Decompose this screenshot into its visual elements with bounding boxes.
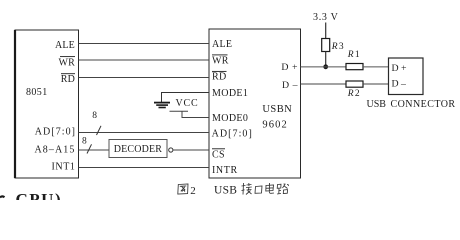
wire VCC to MODE0	[182, 111, 209, 117]
svg-text:R2: R2	[347, 89, 360, 99]
pin RD (8051)	[61, 74, 75, 85]
decoder U3 box	[109, 140, 167, 158]
wire INT1 to INTR	[79, 167, 210, 169]
resistor R3 body	[322, 39, 330, 52]
caption char 口	[255, 186, 262, 193]
svg-text:AD[7:0]: AD[7:0]	[35, 126, 76, 137]
svg-text:8051: 8051	[26, 87, 48, 98]
svg-text:A8–A15: A8–A15	[34, 145, 75, 156]
decoder output inverter bubble	[169, 148, 173, 152]
wire WR	[79, 59, 210, 61]
bus width slash on A8-A15	[87, 144, 92, 153]
svg-text:MODE0: MODE0	[212, 113, 248, 124]
partial page text fragment (bottom-left)	[0, 190, 62, 209]
pin WR (8051)	[58, 57, 75, 69]
wire R1 to connector D+	[363, 66, 389, 68]
svg-text:CPU): CPU)	[16, 190, 63, 200]
svg-text:RD: RD	[61, 74, 75, 85]
resistor R1 body	[346, 64, 363, 70]
bus width slash on AD bus	[97, 126, 102, 135]
svg-text:USBN: USBN	[262, 104, 292, 115]
svg-text:CONNECTOR: CONNECTOR	[391, 99, 456, 110]
caption char 电	[266, 183, 275, 193]
svg-text:WR: WR	[212, 56, 229, 67]
caption char 路	[277, 184, 289, 194]
wire R3 to D+ junction	[325, 52, 327, 67]
junction dot on D+	[323, 64, 328, 69]
wire RD	[79, 77, 210, 79]
svg-text:D –: D –	[392, 78, 407, 89]
wire MODE1 to ground	[162, 93, 210, 103]
wire A8-A15 to decoder	[79, 149, 110, 151]
svg-text:D +: D +	[281, 62, 298, 73]
pin CS (USBN)	[212, 149, 225, 161]
svg-text:VCC: VCC	[176, 98, 199, 109]
svg-text:2: 2	[190, 185, 196, 197]
svg-text:USB: USB	[214, 185, 237, 197]
wire R2 to connector D-	[363, 83, 389, 85]
svg-text:D –: D –	[282, 80, 298, 91]
caption: 图 2 USB 接口电路	[178, 183, 289, 197]
svg-text:D +: D +	[392, 63, 408, 74]
svg-text:ALE: ALE	[212, 39, 232, 50]
svg-text:CS: CS	[212, 150, 225, 161]
wire AD bus	[79, 132, 210, 134]
svg-text:3.3 V: 3.3 V	[313, 12, 339, 23]
svg-text:ALE: ALE	[55, 40, 75, 51]
svg-text:AD[7:0]: AD[7:0]	[212, 129, 253, 140]
svg-text:USB: USB	[367, 99, 387, 110]
wire D+ from USBN to R1	[301, 66, 347, 68]
IC U1 8051 box	[15, 30, 79, 178]
svg-text:R3: R3	[331, 42, 344, 52]
svg-text:DECODER: DECODER	[114, 144, 162, 155]
svg-text:RD: RD	[212, 71, 227, 82]
pin RD (USBN)	[212, 71, 227, 82]
svg-text:R1: R1	[347, 50, 360, 60]
svg-text:8: 8	[92, 111, 97, 121]
svg-text:INTR: INTR	[212, 165, 238, 176]
svg-text:INT1: INT1	[51, 161, 75, 172]
svg-text:MODE1: MODE1	[212, 88, 248, 99]
svg-text:WR: WR	[58, 57, 75, 68]
VCC power tap symbol	[170, 110, 189, 112]
IC U2 USBN9602 box	[209, 29, 301, 178]
svg-text:8: 8	[82, 136, 87, 146]
wire CS	[173, 149, 209, 151]
pin WR (USBN)	[212, 55, 229, 67]
wire D- from USBN to R2	[301, 83, 347, 85]
wire ALE	[79, 43, 210, 45]
USB connector J1 box	[389, 58, 424, 95]
resistor R2 body	[346, 81, 363, 87]
svg-text:9602: 9602	[262, 119, 287, 130]
caption char 接	[242, 183, 252, 195]
ground symbol	[154, 103, 170, 108]
wire 3.3V to R3	[325, 23, 327, 39]
caption char 图	[178, 184, 188, 194]
